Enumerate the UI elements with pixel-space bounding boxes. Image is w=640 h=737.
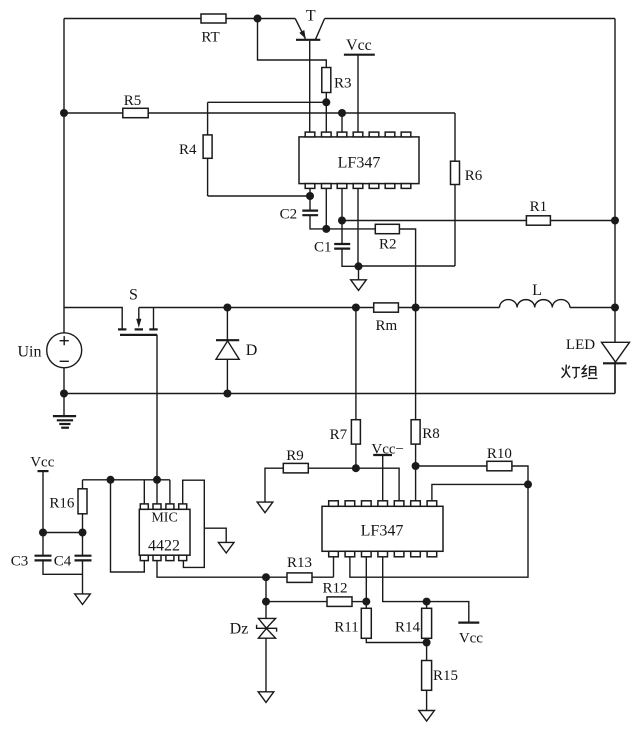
wire U1 pin1 bottom lead <box>309 188 311 196</box>
wire MIC top supply rail <box>83 479 170 481</box>
power Vcc bottom branch <box>427 602 484 647</box>
resistor R9 <box>283 463 308 473</box>
resistor R7 <box>351 420 360 444</box>
node Rm right / R8 / R2 net <box>412 304 420 312</box>
earth ground under Uin <box>53 416 76 428</box>
wire U2 pin2 top lead <box>156 480 158 504</box>
wire R5 left <box>64 112 123 114</box>
node U1 pin1 / R4 / C2 <box>306 192 314 200</box>
svg-text:R8: R8 <box>422 426 440 442</box>
ground triangle below Dz <box>258 692 274 703</box>
svg-text:R10: R10 <box>487 446 512 462</box>
wire junction to U3 pin7 <box>432 484 528 500</box>
node R12 / Dz line <box>262 598 270 606</box>
resistor R5 <box>123 108 148 117</box>
node R12 / R11 / U3 pin3 <box>362 598 370 606</box>
power Vcc top <box>344 37 375 132</box>
node R5 / U1 pin3 <box>338 109 346 117</box>
node Uin / bottom rail <box>60 390 68 398</box>
wire R10 right corner down <box>512 466 528 484</box>
op-amp U1 LF347 <box>299 132 419 188</box>
resistor R8 <box>411 420 420 444</box>
node MIC rail / bypass drop <box>107 476 115 484</box>
svg-text:R7: R7 <box>330 427 348 443</box>
wire R1 right to right bus <box>550 220 615 222</box>
node R5 / left bus <box>60 109 68 117</box>
wire R2 right corner down to rail <box>399 229 415 308</box>
wire main rail centre segment <box>139 307 374 309</box>
svg-text:S: S <box>129 287 138 304</box>
resistor R1 <box>526 216 550 225</box>
wire top rail left <box>64 18 201 20</box>
node diode D bottom <box>223 390 231 398</box>
diode D <box>216 308 257 394</box>
svg-text:D: D <box>246 342 258 359</box>
wire R16 top lead <box>82 480 84 489</box>
svg-text:R2: R2 <box>379 237 397 253</box>
svg-text:C2: C2 <box>280 206 298 222</box>
capacitor C2 <box>280 196 318 222</box>
node U1 pin2 / C2-R2 line <box>322 225 330 233</box>
node Vcc / C3 / R16 link <box>39 529 47 537</box>
svg-text:LF347: LF347 <box>338 155 381 172</box>
svg-text:R3: R3 <box>334 76 352 92</box>
wire R12 line left <box>266 601 327 603</box>
wire R3 bottom lead <box>325 93 327 103</box>
driver U2 MIC4422 <box>139 504 190 561</box>
wire R6 feedback to ground node <box>359 265 456 267</box>
wire right bus vertical <box>614 19 616 394</box>
node R14 bottom / R11 / R15 <box>423 639 431 647</box>
node R8 / R10 line <box>412 462 420 470</box>
wire gate lead down to driver <box>156 335 158 480</box>
node R14 top <box>423 598 431 606</box>
node R16 bottom / C4 <box>79 529 87 537</box>
svg-text:C3: C3 <box>11 554 29 570</box>
wire R6 top vertical <box>454 113 456 161</box>
wire Vcc to R16 bottom link <box>43 532 83 534</box>
svg-text:4422: 4422 <box>148 538 180 555</box>
resistor R2 <box>375 224 399 233</box>
wire Dz bottom lead <box>265 638 267 692</box>
capacitor C3 <box>11 554 52 570</box>
wire R9 left with ground <box>265 468 283 502</box>
wire transistor base lead to U1 pin1 <box>309 41 311 132</box>
svg-text:R1: R1 <box>530 199 548 215</box>
svg-text:R5: R5 <box>124 93 142 109</box>
wire U2 pin1 top lead <box>143 480 145 504</box>
wire C1 bottom to ground node <box>342 249 359 267</box>
node diode D top <box>223 304 231 312</box>
svg-text:RT: RT <box>201 30 219 46</box>
op-amp U3 LF347 (lower) <box>322 501 443 557</box>
svg-text:Dz: Dz <box>230 621 249 638</box>
svg-text:R16: R16 <box>49 496 75 512</box>
wire left bus vertical <box>63 19 65 333</box>
resistor R16 <box>78 489 87 514</box>
svg-text:R15: R15 <box>433 668 458 684</box>
wire U1 pin4 bottom lead <box>357 188 359 266</box>
wire L right to bus <box>570 307 615 309</box>
wire R4 top lead <box>207 102 209 135</box>
wire main rail left segment <box>64 308 122 329</box>
wire R6 bottom vertical <box>454 185 456 267</box>
resistor R13 <box>287 573 312 583</box>
wire U1 pin3 bottom lead to C1 <box>341 188 343 243</box>
svg-text:R14: R14 <box>395 620 421 636</box>
node Dz top / R13 line <box>262 573 270 581</box>
wire R9 right to U3 pin5 <box>308 468 399 501</box>
svg-text:Vcc: Vcc <box>30 455 54 471</box>
wire R11 bottom to R15 node <box>366 638 426 642</box>
node R7 / R9 line <box>352 464 360 472</box>
transistor T <box>295 8 324 40</box>
ground triangle below U1 <box>351 266 367 290</box>
wire R14 bottom lead <box>426 638 428 642</box>
wire Uin bottom lead <box>63 368 65 416</box>
svg-text:MIC: MIC <box>151 511 177 526</box>
resistor RT <box>201 14 226 23</box>
resistor R4 <box>203 135 212 158</box>
resistor R10 <box>487 461 512 471</box>
wire R15 bottom lead <box>426 690 428 710</box>
svg-text:T: T <box>306 8 316 25</box>
ground triangle R9 <box>257 502 273 513</box>
svg-text:C1: C1 <box>314 239 332 255</box>
svg-text:C4: C4 <box>54 554 72 570</box>
svg-text:L: L <box>532 282 542 299</box>
wire R1 line <box>342 220 526 222</box>
wire R7 top vertical from rail <box>355 308 357 420</box>
resistor R14 <box>422 608 432 638</box>
power Vcc- negative supply <box>371 441 404 500</box>
svg-text:LED: LED <box>566 337 595 353</box>
resistor R3 <box>322 68 331 93</box>
capacitor C1 <box>314 239 350 255</box>
ground triangle below C4 <box>75 594 91 605</box>
node R10 feedback junction <box>524 480 532 488</box>
node U1 pin3 / R1 line <box>338 217 346 225</box>
wire U3 pin3 bottom lead to R11 <box>365 557 367 609</box>
node L / right bus <box>611 304 619 312</box>
label 灯组 (lamp group) drawn strokes <box>562 365 598 379</box>
svg-text:Uin: Uin <box>18 344 42 361</box>
voltage source Uin <box>18 333 82 368</box>
wire R8 top vertical from rail <box>415 308 417 420</box>
resistor R11 <box>361 608 371 638</box>
svg-text:R9: R9 <box>286 448 304 464</box>
wire U3 pin1 bottom lead <box>333 557 335 577</box>
resistor R12 <box>327 597 352 607</box>
svg-text:R11: R11 <box>334 620 358 636</box>
node Rm left / R7 <box>352 304 360 312</box>
wire main rail Rm to L <box>398 307 499 309</box>
wire C2 bottom to R2 left <box>310 215 375 229</box>
svg-text:Vcc: Vcc <box>346 37 372 54</box>
node junction top (RT / transistor base bias) <box>254 15 262 23</box>
wire R13 right to U3 pin1 bottom <box>312 576 334 578</box>
wire top rail middle <box>226 18 295 20</box>
zener diode Dz <box>230 618 277 638</box>
node MIC rail / gate line / pin2 <box>153 476 161 484</box>
wire U2 pin3 top lead <box>169 480 171 504</box>
inductor L <box>499 282 569 308</box>
wire Dz vertical <box>265 577 267 638</box>
LED lamp group <box>566 337 630 394</box>
switch S (MOSFET) <box>118 287 158 335</box>
wire left bypass loop to U2 pin1 bottom <box>111 480 145 572</box>
svg-text:R4: R4 <box>179 142 197 158</box>
svg-text:LF347: LF347 <box>361 523 404 540</box>
svg-text:Vcc: Vcc <box>459 631 483 647</box>
wire R16 bottom lead to C4 <box>82 514 84 556</box>
node R3 / R4 / U1 pin2 <box>322 98 330 106</box>
power Vcc left (MIC supply) <box>30 455 54 556</box>
wire R4 bottom line to U1 pin1 bottom <box>208 195 310 197</box>
wire R7 bottom lead <box>355 444 357 468</box>
wire R15 top lead <box>426 643 428 661</box>
node C1/C2/pin4 ground junction <box>355 262 363 270</box>
wire C4 bottom lead <box>82 560 84 594</box>
wire R4 top line <box>208 101 327 103</box>
ground triangle below R15 <box>419 711 435 722</box>
wire R5 right to R6 <box>148 112 455 114</box>
wire C3 bottom to C4 lead <box>43 560 83 574</box>
wire U2 pin2 bottom to R13 <box>157 561 287 578</box>
wire feedback down to U3 pin2 bottom <box>350 484 528 577</box>
wire R10 line left <box>416 465 487 467</box>
wire bottom rail <box>64 393 615 395</box>
node R1 / right bus <box>611 217 619 225</box>
wire base bias from node to R3 <box>258 19 327 68</box>
wire R8 bottom lead through node to U3 pin6 <box>415 444 417 501</box>
wire U1 pin2 bottom lead <box>325 188 327 229</box>
wire U3 pin4 bottom lead to R14 <box>383 557 427 602</box>
wire U1 pin3 top lead <box>341 113 343 132</box>
ground triangle right of U2 <box>218 542 234 553</box>
svg-text:R12: R12 <box>322 580 347 596</box>
capacitor C4 <box>54 554 92 570</box>
svg-text:R6: R6 <box>465 168 483 184</box>
resistor R6 <box>451 161 460 184</box>
wire R14 top lead <box>426 602 428 609</box>
svg-text:Rm: Rm <box>376 318 398 334</box>
wire top rail right <box>325 18 615 20</box>
wire R4 bottom lead <box>207 158 209 196</box>
wire U2 pin4 output loop <box>183 480 205 567</box>
svg-text:R13: R13 <box>287 555 312 571</box>
wire U1 pin2 top lead <box>325 102 327 132</box>
resistor R15 <box>422 661 432 691</box>
wire U2 ground branch <box>204 528 226 542</box>
resistor Rm <box>374 303 399 312</box>
wire R12 right <box>352 601 366 603</box>
